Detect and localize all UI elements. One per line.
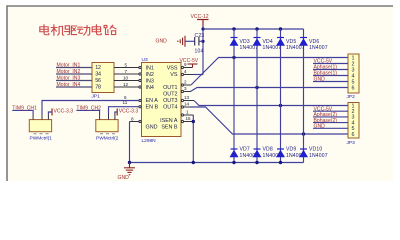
svg-text:11: 11: [123, 100, 128, 105]
wire OUT1 to JP2 pin 1: [191, 58, 348, 86]
wire top VCC-12 bus: [203, 28, 304, 30]
diode VD10: [299, 147, 328, 159]
U3 GND pin 8 stub: [130, 120, 142, 122]
wire diode column 3: [280, 29, 282, 163]
wire JP3 pin4 stub: [313, 122, 348, 124]
svg-text:104: 104: [195, 48, 204, 54]
sheet background: [0, 0, 400, 188]
junction gnd bus / sense: [192, 161, 195, 164]
wire JP1 to U3 IN4 pin 12: [114, 86, 141, 88]
wire JP3 pin3 stub: [313, 116, 348, 118]
svg-text:10: 10: [123, 75, 129, 80]
svg-text:U3: U3: [142, 57, 148, 63]
junction bus / VD3: [232, 27, 235, 30]
svg-text:12: 12: [123, 82, 129, 87]
svg-text:JP1: JP1: [92, 94, 101, 100]
connector JP3: [348, 103, 359, 139]
svg-text:Motor_IN1: Motor_IN1: [57, 62, 81, 68]
驱: [65, 26, 77, 35]
svg-text:1N4007: 1N4007: [309, 153, 328, 159]
wire JP3 pin2 stub: [313, 110, 348, 112]
电: [40, 25, 49, 35]
svg-text:TIM9_CH2: TIM9_CH2: [76, 106, 101, 112]
svg-text:2: 2: [184, 80, 187, 85]
wire Motor_IN2: [56, 73, 92, 75]
junction gnd bus left: [128, 161, 131, 164]
svg-text:L298N: L298N: [142, 138, 157, 144]
svg-text:VCC-3.3: VCC-3.3: [119, 108, 139, 114]
svg-text:GND: GND: [314, 124, 326, 130]
wire EN A from PWM1 pin to U3 pin 6: [42, 101, 139, 115]
power symbol VCC-5V at pin 9: [188, 64, 198, 68]
wire VCC-12 rail vertical: [202, 27, 204, 75]
wire OUT4 to JP3 pin 6: [190, 107, 348, 134]
svg-text:VD7: VD7: [240, 147, 250, 153]
svg-text:1: 1: [186, 110, 189, 115]
svg-text:IN4: IN4: [146, 85, 154, 91]
U3 VS pin 4 stub: [181, 73, 194, 75]
wire PWM2 VCC pin: [115, 112, 117, 114]
U3 OUT2 pin 3 stub: [181, 90, 190, 92]
svg-text:GND: GND: [314, 77, 326, 83]
power symbol VCC-3.3 PWM1: [51, 109, 53, 116]
svg-text:JP3: JP3: [347, 140, 356, 146]
svg-text:PWMctrl(1: PWMctrl(1: [30, 136, 53, 142]
svg-text:8: 8: [98, 85, 101, 91]
PWM1 pin stubs: [33, 114, 48, 120]
junction VCC-12 / C23: [201, 40, 204, 43]
svg-text:OUT2: OUT2: [163, 91, 177, 97]
svg-text:6: 6: [352, 132, 355, 138]
svg-text:VSS: VSS: [167, 65, 178, 71]
junction VCC-12 / top bus: [201, 27, 204, 30]
svg-text:C23: C23: [195, 33, 205, 39]
diode VD5: [276, 38, 305, 51]
svg-text:GND: GND: [118, 175, 130, 181]
svg-text:7: 7: [125, 69, 128, 74]
电: [92, 25, 101, 35]
svg-text:4: 4: [184, 69, 187, 74]
wire diode column 1: [233, 29, 235, 163]
junction gnd bus / VD8: [255, 161, 258, 164]
wire Motor_IN1: [56, 67, 92, 69]
svg-text:EN A: EN A: [146, 98, 159, 104]
connector JP2: [348, 54, 359, 93]
svg-text:ISEN A: ISEN A: [160, 118, 178, 124]
动: [77, 25, 89, 35]
wire diode column 2: [256, 29, 258, 163]
svg-text:IN2: IN2: [146, 72, 154, 78]
svg-text:IN3: IN3: [146, 78, 154, 84]
sheet border frame: [7, 6, 393, 181]
svg-text:8: 8: [131, 116, 134, 121]
svg-text:Motor_IN2: Motor_IN2: [57, 69, 81, 75]
svg-text:VCC-3.3: VCC-3.3: [54, 108, 74, 114]
wire JP2 pin5 stub: [313, 81, 348, 83]
wire EN B from PWM2 pin to U3 pin 11: [109, 107, 140, 114]
wire sense pins to ground bus: [192, 115, 194, 163]
diode VD8: [253, 147, 282, 159]
junction bus / VD5: [279, 27, 282, 30]
wire Motor_IN4: [56, 86, 92, 88]
wire JP1 to U3 IN2 pin 7: [114, 73, 141, 75]
U3 SEN A pin 1 stub: [181, 114, 193, 116]
U3 OUT4 pin 14 stub: [181, 106, 190, 108]
wire PWM1 VCC pin: [48, 112, 51, 114]
module PWMctrl 2: [96, 120, 118, 132]
svg-text:13: 13: [184, 95, 190, 100]
title 电机驱动电路: [40, 25, 116, 36]
diode VD7: [230, 147, 259, 159]
wire TIM9_CH2: [76, 110, 99, 114]
svg-text:3: 3: [184, 86, 187, 91]
diode VD3: [230, 38, 259, 51]
svg-text:VD10: VD10: [309, 147, 322, 153]
diode VD6: [299, 38, 328, 51]
op-amp U3 L298N body: [142, 63, 182, 137]
wire OUT3 to JP3 pin 1: [194, 101, 348, 106]
wire TIM9_CH1: [12, 110, 33, 114]
diode VD4: [253, 38, 282, 51]
svg-text:OUT3: OUT3: [163, 98, 177, 104]
junction gnd bus / VD9: [279, 161, 282, 164]
路: [104, 25, 116, 34]
wire JP3 pin5 stub: [313, 127, 348, 129]
svg-text:SEN B: SEN B: [161, 124, 178, 130]
svg-text:4: 4: [98, 72, 101, 78]
connector JP1: [92, 63, 114, 93]
wire JP1 to U3 IN1 pin 5: [114, 66, 141, 68]
U3 OUT1 pin 2 stub: [181, 84, 191, 86]
diode VD9: [276, 147, 305, 159]
svg-text:6: 6: [352, 85, 355, 91]
wire JP1 to U3 IN3 pin 10: [114, 79, 141, 81]
svg-text:Motor_IN4: Motor_IN4: [57, 82, 81, 88]
junction pin15: [192, 120, 195, 123]
svg-text:VS: VS: [170, 72, 178, 78]
svg-text:1N4007: 1N4007: [309, 45, 328, 51]
U3 SEN B pin 15 stub: [181, 120, 193, 122]
svg-text:15: 15: [186, 116, 192, 121]
junction OUT1 / VD3 column: [232, 56, 235, 59]
module PWMctrl 1: [29, 120, 51, 132]
wire ground bus bottom: [130, 162, 304, 164]
svg-text:14: 14: [184, 102, 190, 107]
svg-text:JP2: JP2: [347, 94, 356, 100]
机: [51, 25, 64, 36]
ground symbol left of C23: [178, 36, 185, 47]
wire VS to VCC-12 rail: [194, 74, 203, 76]
PWM2 footprint marks: [100, 133, 115, 135]
ground symbol bottom: [124, 163, 135, 175]
svg-text:GND: GND: [156, 39, 168, 45]
wire diode column 4: [303, 29, 305, 163]
junction OUT4 / VD6 column: [302, 132, 305, 135]
svg-text:OUT4: OUT4: [163, 104, 177, 110]
svg-text:PWMctrl(2: PWMctrl(2: [96, 136, 119, 142]
U3 VSS pin 9 stub: [181, 66, 192, 68]
svg-text:TIM9_CH1: TIM9_CH1: [12, 106, 37, 112]
svg-text:VD9: VD9: [286, 147, 296, 153]
power symbol VCC-3.3 PWM2: [116, 109, 118, 116]
svg-text:EN B: EN B: [146, 104, 159, 110]
wire JP2 pin4 stub: [313, 75, 348, 77]
svg-text:6: 6: [98, 78, 101, 84]
PWM2 pin stubs: [100, 114, 115, 120]
svg-text:5: 5: [125, 62, 128, 67]
wire U3 pin 8 to ground bus: [129, 122, 131, 163]
svg-text:VCC-5V: VCC-5V: [180, 58, 199, 64]
wire JP2 pin2 stub: [313, 63, 348, 65]
wire Motor_IN3: [56, 80, 92, 82]
capacitor C23: [195, 37, 199, 46]
junction OUT3 / VD5 column: [279, 104, 282, 107]
svg-text:GND: GND: [146, 124, 158, 130]
U3 pin names: [146, 65, 178, 130]
junction gnd bus / VD7: [232, 161, 235, 164]
wire C23 right: [199, 40, 203, 42]
svg-text:IN1: IN1: [146, 65, 154, 71]
svg-text:OUT1: OUT1: [163, 85, 177, 91]
svg-text:VD8: VD8: [263, 147, 273, 153]
svg-text:Motor_IN3: Motor_IN3: [57, 75, 81, 81]
wire OUT2 to JP2 pin 6: [191, 88, 349, 92]
U3 OUT3 pin 13 stub: [181, 99, 194, 101]
svg-text:2: 2: [98, 65, 101, 71]
junction OUT2 / VD4 column: [255, 86, 258, 89]
wire JP2 pin3 stub: [313, 69, 348, 71]
wire C23 left: [185, 40, 195, 42]
PWM1 footprint marks: [34, 133, 49, 135]
junction bus / VD4: [255, 27, 258, 30]
